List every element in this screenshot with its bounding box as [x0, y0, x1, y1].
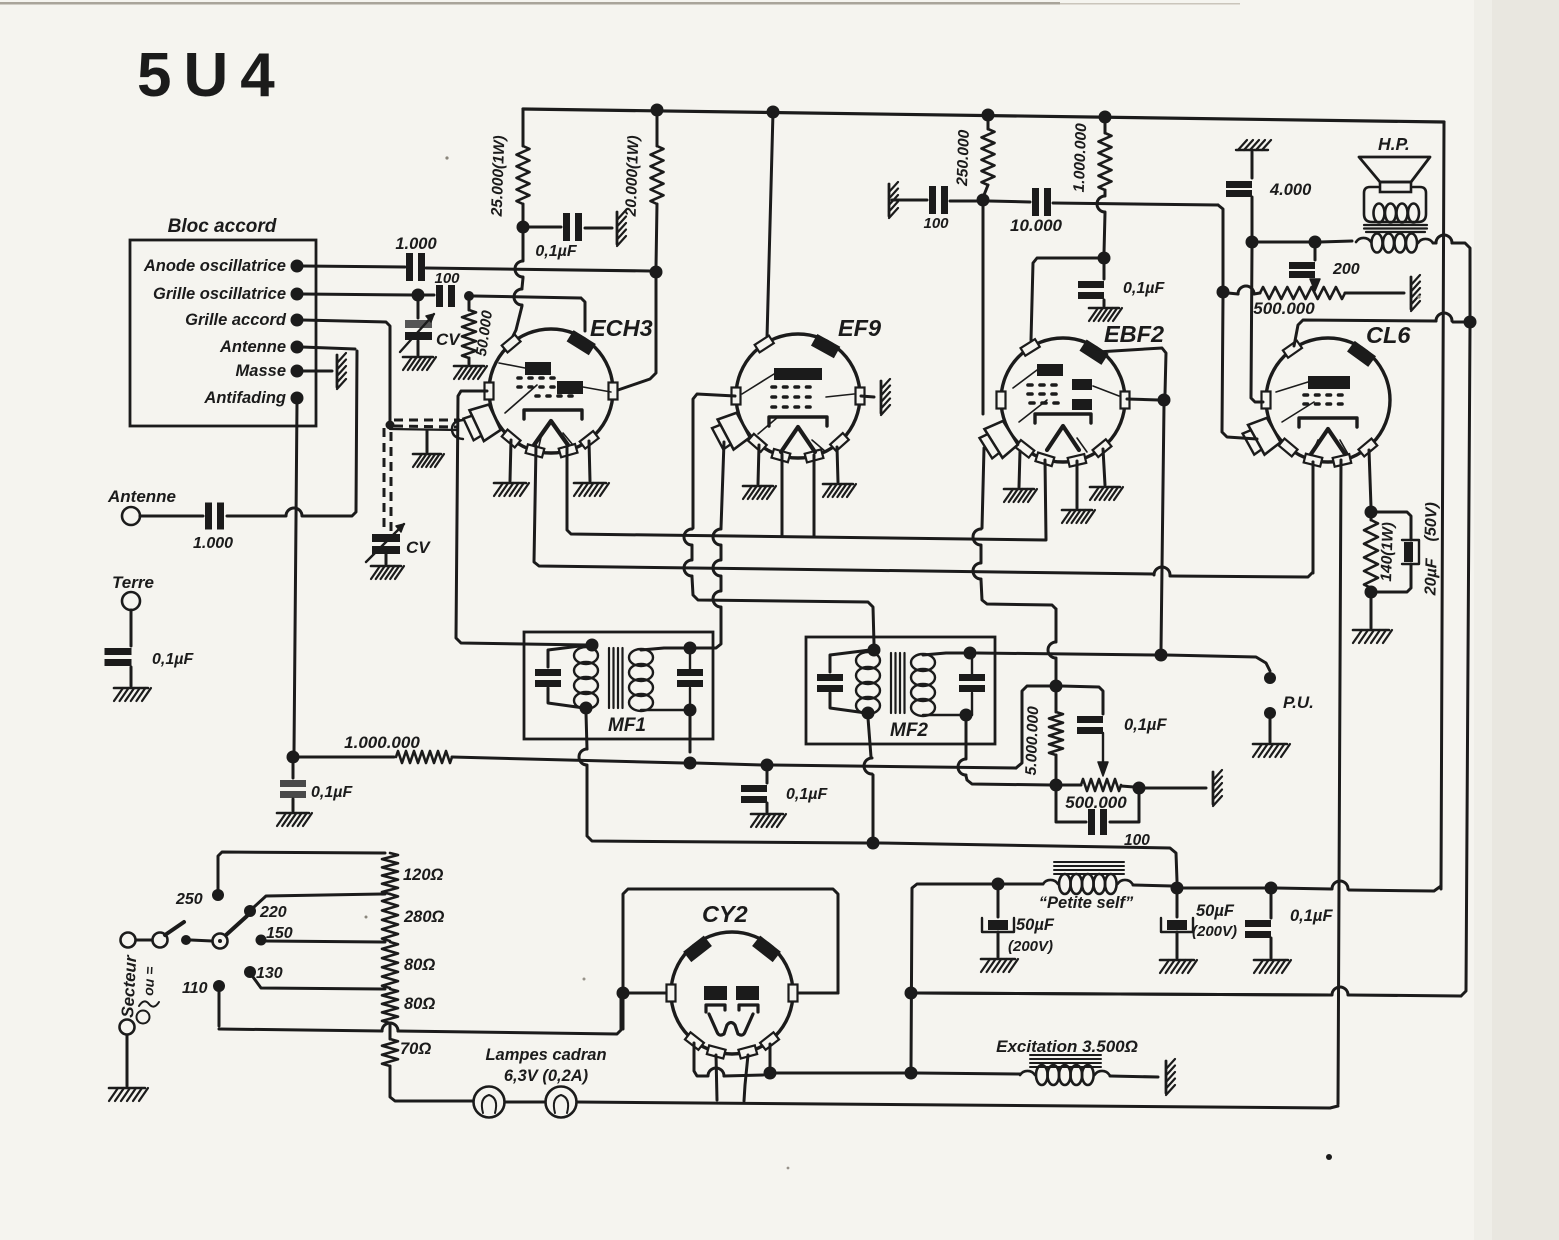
node: cathode/140: [1365, 506, 1378, 519]
node: EBF2 screen node: [1098, 252, 1111, 265]
terminal: tap 250: [212, 889, 224, 901]
wire: B+ takeoff to filter: [776, 1072, 905, 1075]
node: bus/20.000: [651, 104, 664, 117]
svg-text:280Ω: 280Ω: [403, 908, 445, 926]
node: MF2 primary bottom: [862, 707, 875, 720]
wire: excitation to chassis: [1110, 1076, 1158, 1077]
ground (under CV osc): [403, 357, 436, 370]
wire: 4.000 to node: [1251, 197, 1254, 237]
wire: AVC bus to MF1 node: [452, 757, 684, 763]
ground (ECH3 pin 3): [574, 441, 609, 496]
svg-text:Lampes cadran: Lampes cadran: [485, 1046, 606, 1064]
terminal: tap 220: [244, 905, 256, 917]
wire: CY2 box: [623, 889, 838, 1029]
wire: heater line to excitation: [916, 1073, 1020, 1074]
resistor R 280 ohm: [382, 894, 445, 941]
wire: EBF2 cathode to H1: [1045, 460, 1046, 539]
tube ECH3 envelope and pins: [461, 315, 652, 457]
capacitor C 100 (grille osc): [422, 270, 460, 307]
ground (50uF no1): [981, 959, 1018, 972]
wire: node to 200 node: [1257, 241, 1310, 244]
node: volume pot left: [1050, 779, 1063, 792]
wire: terre cap to ground: [130, 667, 133, 686]
wire: bus to EF9 top pin: [767, 112, 773, 338]
node: filter left top: [905, 1067, 918, 1080]
wire: primary right to B+ node: [1433, 235, 1470, 317]
svg-text:500.000: 500.000: [1253, 299, 1315, 318]
ground (terre): [114, 688, 151, 701]
svg-text:110: 110: [182, 980, 208, 997]
wire: 20.000 to anode node: [656, 204, 657, 267]
svg-text:250: 250: [175, 891, 203, 908]
node: AVC/5M junction: [1050, 680, 1063, 693]
mark: small specks: [365, 156, 1421, 1169]
wire: 110 down to heater line: [218, 992, 221, 1026]
ground (under tuning CV): [371, 566, 404, 579]
resistor R 1.000.000 (EBF2): [1071, 123, 1112, 193]
svg-text:CY2: CY2: [702, 901, 748, 927]
svg-text:250.000: 250.000: [954, 129, 973, 187]
node: CY2 anode strap: [617, 987, 630, 1000]
wire: 25.000 to node: [522, 204, 525, 222]
capacitor C 1.000 (anode osc): [395, 235, 437, 281]
node: CY2 B+ takeoff: [764, 1067, 777, 1080]
switch rotor 1: [153, 922, 185, 948]
label: 220: [259, 904, 287, 921]
wire: B+ node down right edge: [1461, 327, 1470, 996]
label: P.U.: [1283, 693, 1314, 712]
node: MF1 secondary bottom: [684, 704, 697, 717]
symbol: AC: [137, 1001, 160, 1023]
node: MF1 primary bottom: [580, 702, 593, 715]
svg-text:CV: CV: [406, 538, 431, 557]
wire: diode node down to detector line: [1161, 405, 1164, 650]
svg-text:0,1µF: 0,1µF: [1123, 280, 1165, 297]
svg-text:20µF: 20µF: [1422, 557, 1440, 597]
mark: ink speck: [1326, 1154, 1332, 1160]
capacitor C 1.000 (antenne): [193, 503, 233, 553]
svg-text:1.000.000: 1.000.000: [1071, 123, 1090, 193]
inductor excitation field coil: [1020, 1055, 1110, 1085]
wire: grille osc to CV node: [302, 294, 414, 295]
speaker cone: [1359, 157, 1430, 192]
tube EF9 internals: [742, 368, 854, 452]
capacitor C 20uF (50V) electrolytic: [1376, 502, 1441, 597]
wire: top B+ bus: [523, 109, 1444, 122]
svg-text:220: 220: [259, 904, 287, 921]
wire: petite self to 50uF-2: [1133, 885, 1172, 886]
terminal: secteur line 2: [120, 1020, 135, 1035]
tube CY2 internals: [704, 986, 759, 1035]
wire: MF1 secondary bottom to AVC: [689, 715, 692, 752]
svg-text:120Ω: 120Ω: [403, 866, 444, 884]
wire: H1 cathode bus: [567, 446, 1046, 540]
node: bus/EF9 screen: [767, 106, 780, 119]
wire: EBF2 anode to diode node: [1097, 348, 1166, 394]
node: filter node 993: [905, 987, 918, 1000]
wire: heater AC line to CY2: [219, 998, 621, 1034]
terminal: Antenne: [219, 338, 304, 356]
transformer MF2: [806, 637, 995, 744]
node: screen/B+ right: [1464, 316, 1477, 329]
speaker voice coil box: [1364, 187, 1426, 222]
terminal: tap 150: [256, 935, 267, 946]
node: CV junction: [412, 289, 425, 302]
wire: pot right to chassis: [1144, 787, 1206, 790]
svg-text:25.000(1W): 25.000(1W): [489, 135, 509, 218]
svg-text:Anode oscillatrice: Anode oscillatrice: [143, 257, 286, 275]
wire: anode node to ECH3 plate pin: [618, 277, 656, 390]
node: MF2 secondary top: [964, 647, 977, 660]
wire: CY2 filament pin right: [769, 1044, 772, 1068]
node: 0,1uF bus junction: [1265, 882, 1278, 895]
resistor R 1.000.000 (AVC): [344, 733, 452, 763]
wire: secteur 2 to ground: [126, 1035, 129, 1086]
resistor R 120 ohm: [382, 853, 444, 894]
svg-text:5U4: 5U4: [137, 41, 287, 110]
ground (50uF no2): [1160, 960, 1197, 973]
svg-text:CV: CV: [436, 330, 461, 349]
wire: 250.000 to grid node: [984, 185, 988, 195]
svg-text:1.000: 1.000: [193, 535, 233, 552]
wire: 1M to screen node: [1097, 190, 1105, 253]
node: 50uF-1 junction: [992, 878, 1005, 891]
svg-text:P.U.: P.U.: [1283, 693, 1314, 712]
wire: EF9 anode wire A: [684, 394, 874, 644]
wire: divider bottom to lamps: [390, 1066, 473, 1101]
node: MF1 secondary top: [684, 642, 697, 655]
wire: 200 node to primary: [1320, 241, 1352, 242]
wire: EBF2 right pin to diode node: [1127, 399, 1159, 400]
node: EBF2 grid node: [977, 194, 990, 207]
wire: EF9 grid wire B: [696, 442, 724, 648]
ground (EBF2 pin b): [1062, 461, 1095, 523]
capacitor C 0,1uF (osc anode): [528, 213, 582, 260]
wire: CL6 heater down: [1338, 460, 1341, 1104]
terminal: Anode oscillatrice: [143, 257, 304, 275]
tube EF9 envelope and pins: [710, 315, 881, 462]
svg-text:5.000.000: 5.000.000: [1023, 706, 1042, 776]
wire: 100 to grid node: [950, 200, 977, 203]
resistor R 5.000.000: [1023, 691, 1063, 780]
ground (secteur): [109, 1088, 148, 1101]
wire: ECH3 anode pin to MF1: [456, 391, 588, 645]
ground (AVC mid cap): [751, 814, 786, 827]
svg-text:4.000: 4.000: [1269, 181, 1312, 199]
terminal: Masse: [236, 362, 304, 380]
svg-text:Bloc accord: Bloc accord: [168, 216, 277, 237]
label: 110: [182, 980, 208, 997]
tube CL6 internals: [1276, 376, 1357, 454]
capacitor C 4.000: [1226, 181, 1312, 199]
ground (EBF2 screen cap): [1089, 308, 1122, 321]
svg-text:0,1µF: 0,1µF: [1124, 716, 1167, 734]
chassis wall (excitation): [1166, 1059, 1175, 1095]
resistor R 80 ohm (1): [382, 942, 435, 988]
capacitor C 0,1uF (AVC mid): [741, 770, 828, 812]
wire: B+ line to filter node: [880, 843, 1177, 881]
node: 50uF-2 junction: [1171, 882, 1184, 895]
svg-text:H.P.: H.P.: [1378, 134, 1410, 154]
chassis wall (100 grid cap): [889, 182, 898, 218]
wire: bottom bus riser joint: [1330, 1106, 1338, 1108]
svg-text:500.000: 500.000: [1065, 793, 1127, 812]
label: lampes cadran: [485, 1046, 606, 1085]
ground (EF9 pin left): [743, 445, 776, 499]
tube EBF2 internals: [1013, 364, 1119, 452]
svg-text:Antenne: Antenne: [219, 338, 286, 356]
svg-text:0,1µF: 0,1µF: [786, 786, 828, 803]
terminal: antenne post: [122, 507, 140, 525]
terminal: Grille accord: [185, 311, 303, 329]
ground (4.000 top): [1236, 140, 1271, 178]
wire: 10.000 to tone corner: [1053, 203, 1223, 287]
wire: P.U. to ground: [1269, 719, 1272, 742]
svg-text:6,3V (0,2A): 6,3V (0,2A): [504, 1067, 589, 1085]
wire: lamps to bottom bus: [577, 1102, 1330, 1108]
wire: MF2 secondary bottom to pot: [958, 720, 1051, 785]
capacitor C 0,1uF (terre): [105, 648, 195, 668]
capacitor C 0,1uF (output bus): [1245, 893, 1333, 958]
wire: detector to P.U.: [1166, 655, 1270, 671]
inductor petite self: [1039, 862, 1134, 912]
svg-text:ou =: ou =: [140, 966, 158, 996]
wire: EF9 suppressor pin to H1: [813, 455, 816, 537]
svg-text:50µF: 50µF: [1196, 902, 1235, 920]
terminal: P.U. bottom: [1264, 707, 1276, 719]
paper top edge: [0, 2, 1240, 5]
svg-text:(200V): (200V): [1008, 938, 1053, 955]
svg-text:1.000.000: 1.000.000: [344, 733, 420, 752]
wire: antenna post to 1.000: [140, 515, 203, 518]
label: 250: [175, 891, 203, 908]
node: antifading AVC junction: [287, 751, 300, 764]
svg-text:100: 100: [434, 270, 460, 287]
tube ECH3 internals: [499, 362, 611, 446]
tube EBF2 envelope and pins: [977, 321, 1164, 467]
wire: MF1 primary bottom to B+ bus: [579, 713, 866, 843]
wire: CY2 filament pin left: [694, 1043, 763, 1076]
ground (EBF2 pin c): [1090, 449, 1123, 500]
node: switch mid: [181, 935, 191, 945]
svg-text:MF2: MF2: [890, 720, 928, 741]
wire: 250 to divider top: [218, 852, 385, 889]
svg-text:Terre: Terre: [112, 573, 154, 592]
speaker voice coil: [1374, 204, 1420, 223]
chassis wall (volume pot): [1213, 770, 1222, 806]
wire: AVC bus to 5M corner: [772, 686, 1050, 768]
capacitor C 100 (pot bridge): [1056, 790, 1150, 849]
wire: 1.000 cap to 20.000 node: [426, 268, 650, 271]
dashed gang link vertical: [384, 428, 391, 531]
node: detector junction: [1155, 649, 1168, 662]
capacitor C 0,1uF (AF coupling): [1061, 686, 1167, 776]
svg-text:CL6: CL6: [1366, 322, 1411, 348]
wire: 130 to divider: [253, 977, 385, 989]
node: MF2 primary top: [868, 644, 881, 657]
node: 50.000 junction: [464, 291, 474, 301]
wire: EF9 cathode to H1: [781, 454, 784, 536]
svg-text:20.000(1W): 20.000(1W): [623, 135, 643, 218]
ground (EBF2 pin a): [1004, 451, 1037, 502]
svg-text:Antifading: Antifading: [203, 389, 286, 407]
wire: 150 to divider: [266, 941, 385, 942]
resistor R 70 ohm: [382, 1023, 431, 1066]
svg-text:(200V): (200V): [1192, 923, 1237, 940]
capacitor C 50uF (200V) no2: [1161, 892, 1237, 958]
variable capacitor CV (tuning gang): [366, 524, 431, 564]
wire: antenna cap to bloc antenne: [227, 347, 357, 516]
wire: 220 to divider: [254, 894, 385, 907]
wire: CL6 H2 pin down: [1312, 462, 1315, 573]
wire: corner down to 5M node: [1048, 609, 1056, 680]
svg-text:0,1µF: 0,1µF: [152, 651, 194, 668]
wire: anode oscillatrice to node: [302, 266, 405, 267]
block: Bloc accord tuner box: [130, 216, 316, 426]
label: Terre: [112, 573, 154, 592]
svg-text:80Ω: 80Ω: [404, 956, 435, 974]
ground (under 50.000): [454, 366, 487, 379]
potentiometer R 500.000 (tone): [1228, 286, 1404, 318]
wire: bus to 1M: [1104, 117, 1107, 133]
wire: MF2 primary bottom to B+: [864, 718, 873, 838]
wire: switch mid: [191, 940, 212, 941]
resistor R 20.000 (1W): [623, 135, 664, 218]
svg-text:Grille oscillatrice: Grille oscillatrice: [153, 285, 286, 303]
node: 25.000/0,1uF: [517, 221, 530, 234]
resistor R 25.000 (1W): [489, 135, 530, 218]
wire: bus to petite self: [1003, 883, 1043, 886]
wire: osc anode cap to chassis: [585, 227, 612, 230]
svg-text:Masse: Masse: [236, 362, 286, 380]
chassis wall (tone pot): [1411, 275, 1420, 311]
node: 4.000/200/CL6 junction: [1246, 236, 1259, 249]
ground (0,1uF bus): [1254, 960, 1291, 973]
dashed gang link horizontal: [394, 420, 460, 427]
terminal: Antifading: [203, 389, 303, 407]
label: 130: [256, 965, 283, 982]
terminal: P.U. top: [1264, 672, 1276, 684]
node: bus/1M: [1099, 111, 1112, 124]
tube CY2 envelope and pins: [667, 901, 798, 1058]
wire: secteur to switch: [136, 939, 152, 942]
svg-text:0,1µF: 0,1µF: [311, 784, 353, 801]
node: MF1 secondary return: [684, 757, 697, 770]
svg-text:“Petite self”: “Petite self”: [1039, 894, 1134, 912]
terminal: Grille oscillatrice: [153, 285, 303, 303]
wire: AVC dot to 1M: [298, 756, 394, 759]
wire: filter riser: [911, 884, 994, 1068]
variable capacitor CV (osc padder): [400, 300, 461, 355]
wire: bus to 250.000: [987, 115, 990, 129]
capacitor C 50uF (200V) no1: [982, 889, 1055, 957]
ground (P.U.): [1253, 744, 1290, 757]
svg-text:140(1W): 140(1W): [1378, 522, 1397, 582]
svg-text:Grille accord: Grille accord: [185, 311, 287, 329]
node: B+ / MF2 primary: [867, 837, 880, 850]
svg-text:0,1µF: 0,1µF: [535, 243, 577, 260]
svg-text:EBF2: EBF2: [1104, 321, 1164, 347]
capacitor C 0,1uF (AVC): [280, 762, 353, 811]
bell: grid wire entry: [452, 420, 463, 439]
svg-text:50µF: 50µF: [1016, 916, 1055, 934]
wire: CL6 grid from tone pot: [1222, 297, 1257, 439]
node: MF2 secondary bottom: [960, 709, 973, 722]
terminal: tap 130: [244, 966, 256, 978]
svg-text:ECH3: ECH3: [590, 315, 653, 341]
wire: node down to ECH3: [512, 232, 523, 338]
terminal: secteur line 1: [121, 933, 136, 948]
wire: terre to cap: [130, 610, 133, 646]
potentiometer R 500.000 (volume): [1061, 779, 1134, 812]
capacitor C 200: [1289, 247, 1360, 291]
svg-text:100: 100: [923, 215, 949, 232]
wire: H2 bus: [534, 446, 1313, 577]
wire: 993 line right: [916, 993, 1331, 995]
svg-text:EF9: EF9: [838, 315, 881, 341]
wire: right edge to rectifier node: [916, 987, 1461, 996]
wire: bus to 0,1uF node: [1182, 887, 1266, 890]
resistor R 80 ohm (2): [382, 989, 435, 1023]
svg-text:Antenne: Antenne: [107, 487, 176, 506]
node: gang link junction: [386, 421, 395, 430]
svg-text:80Ω: 80Ω: [404, 995, 435, 1013]
wire: B+ riser (right edge): [1441, 122, 1444, 889]
wire: CL6 injection grid from 4.000 node: [1251, 247, 1263, 402]
chassis wall (masse): [337, 353, 346, 389]
wire: masse to chassis: [302, 370, 332, 373]
svg-text:70Ω: 70Ω: [400, 1040, 431, 1058]
svg-text:200: 200: [1332, 261, 1360, 278]
title 5U4: [137, 41, 287, 110]
resistor R 50.000 (osc grid leak): [462, 301, 496, 364]
wire: grille accord to ECH3 triode grid: [302, 320, 390, 421]
svg-text:Excitation 3.500Ω: Excitation 3.500Ω: [996, 1037, 1138, 1056]
svg-text:(50V): (50V): [1422, 502, 1440, 542]
wire: bus to riser corner: [1276, 881, 1441, 891]
svg-text:MF1: MF1: [608, 715, 646, 736]
resistor R 140 (1W): [1364, 517, 1397, 588]
wire: 100 cap to ECH3 osc grid: [474, 296, 585, 331]
capacitor C 100 (EBF2 grid): [923, 186, 949, 232]
ground (ECH3 pin 1): [494, 440, 529, 496]
ground (CL6 cathode): [1353, 630, 1392, 643]
svg-text:10.000: 10.000: [1010, 216, 1063, 235]
transformer core (output): [1364, 225, 1427, 232]
wire: CY2 right pin: [794, 988, 838, 993]
label: excitation: [996, 1037, 1138, 1056]
node: AVC 0,1uF junction: [761, 759, 774, 772]
wire: CY2 left pin: [628, 992, 670, 995]
svg-text:130: 130: [256, 965, 283, 982]
wire: MF2 secondary top to detector line: [977, 653, 1156, 655]
ground stub (on accord grid wire): [413, 431, 444, 467]
capacitor C 10.000: [1010, 188, 1063, 235]
chassis wall (0,1uF osc): [617, 210, 626, 246]
lamp: dial lamp 1: [474, 1087, 505, 1118]
capacitor C 0,1uF (EBF2 screen): [1078, 263, 1165, 306]
terminal: tap 110: [213, 980, 225, 992]
node: cathode/140 bottom: [1365, 586, 1378, 599]
lamp: dial lamp 2: [546, 1087, 577, 1118]
label: Secteur: [118, 954, 140, 1019]
node: ECH3 anode junction: [650, 266, 663, 279]
label: 150: [266, 925, 293, 942]
node: tone pot left: [1217, 286, 1230, 299]
label: Antenne: [107, 487, 176, 506]
wire: 140 to ground: [1370, 597, 1373, 628]
ground (EF9 pin right): [823, 447, 856, 497]
